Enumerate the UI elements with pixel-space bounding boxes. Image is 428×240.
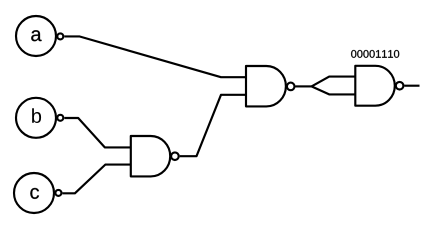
wire G3 output: [404, 85, 419, 87]
wire a to G2 top input: [64, 36, 246, 77]
wire G1 output to G2 bottom input: [180, 95, 246, 156]
input c: [14, 173, 54, 213]
nand gate G3 output bubble: [396, 82, 404, 90]
nand gate G2: [246, 66, 286, 106]
input b label: [32, 108, 41, 123]
wire split upper branch to G3 top input: [312, 77, 356, 87]
input c pin bubble: [55, 190, 61, 196]
wire split lower branch to G3 bottom input: [312, 86, 356, 94]
input a pin bubble: [57, 33, 63, 39]
input c label: [30, 188, 39, 199]
input a label: [31, 30, 41, 41]
nand gate G1: [131, 136, 170, 176]
input b pin bubble: [57, 115, 63, 121]
nand gate G2 output bubble: [287, 83, 295, 91]
nand gate G3: [355, 66, 394, 106]
input b: [16, 98, 56, 138]
label 00001110: [351, 50, 399, 58]
wire G2 output to split point: [296, 85, 312, 87]
wire c to G1 bottom input: [62, 165, 130, 194]
nand gate G1 output bubble: [171, 152, 179, 160]
wire b to G1 top input: [64, 118, 130, 147]
input a: [16, 16, 56, 56]
